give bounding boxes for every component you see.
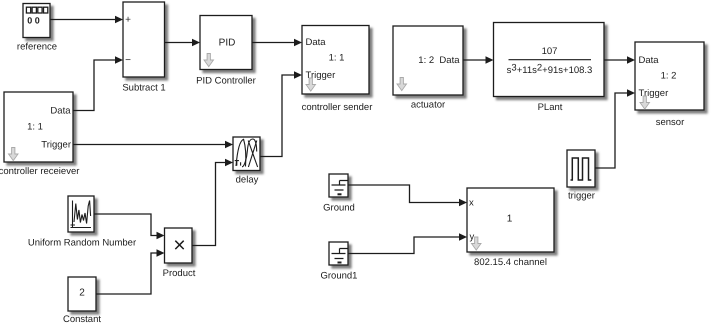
svg-text:Data: Data — [639, 55, 660, 66]
block actuator — [393, 26, 463, 111]
block delay (variable time delay) — [233, 137, 260, 186]
svg-text:reference: reference — [17, 42, 57, 53]
wire delay output to sender Trigger input — [260, 71, 302, 156]
svg-text:0 0: 0 0 — [27, 16, 40, 26]
wire actuator output to PLant input — [463, 56, 494, 64]
svg-text:PID: PID — [219, 38, 236, 49]
svg-text:2: 2 — [79, 288, 85, 299]
svg-text:1: 1 — [507, 214, 513, 225]
svg-text:1: 1: 1: 1 — [27, 122, 43, 133]
svg-text:1: 2: 1: 2 — [661, 71, 677, 82]
block controller receiever — [0, 92, 79, 177]
block PID Controller U-PID — [196, 16, 256, 87]
svg-text:802.15.4 channel: 802.15.4 channel — [474, 257, 547, 268]
block Product — [163, 228, 196, 279]
svg-text:Ground: Ground — [323, 203, 355, 214]
wire receiever Trigger to delay input 1 — [73, 141, 233, 149]
svg-text:PLant: PLant — [538, 102, 563, 113]
svg-text:PID Controller: PID Controller — [196, 76, 256, 87]
wire PID output to sender Data input — [252, 39, 302, 47]
block PLant transfer function — [494, 23, 605, 114]
block 802.15.4 channel — [467, 188, 554, 268]
wire trigger output to sensor Trigger input — [595, 89, 635, 168]
block Ground1 — [321, 242, 358, 282]
svg-text:Uniform Random Number: Uniform Random Number — [28, 238, 136, 249]
svg-text:trigger: trigger — [568, 191, 595, 202]
svg-text:actuator: actuator — [411, 100, 445, 111]
block Constant value 2 — [63, 277, 101, 325]
svg-text:s3+11s2+91s+108.3: s3+11s2+91s+108.3 — [507, 63, 593, 77]
wire receiever Data to Subtract minus input — [73, 56, 123, 110]
wire Product output to delay input 2 — [192, 159, 233, 246]
wire Constant to Product input 2 — [96, 249, 165, 294]
block trigger (pulse generator) — [567, 150, 595, 202]
svg-text:Trigger: Trigger — [41, 140, 71, 151]
wire reference to Subtract plus input — [50, 16, 123, 24]
svg-text:Constant: Constant — [63, 314, 101, 325]
svg-text:1: 2 Data: 1: 2 Data — [418, 55, 460, 66]
svg-text:Data: Data — [306, 37, 327, 48]
svg-text:1: 1: 1: 1 — [329, 53, 345, 64]
block Uniform Random Number — [28, 196, 136, 249]
wire Ground1 to channel y input — [348, 233, 467, 253]
block Ground — [323, 174, 355, 214]
svg-text:−: − — [125, 55, 131, 66]
block controller sender — [302, 26, 373, 114]
svg-text:delay: delay — [236, 175, 259, 186]
svg-text:x: x — [469, 198, 474, 209]
svg-text:controller receiever: controller receiever — [0, 166, 79, 177]
block Subtract 1 — [122, 2, 165, 94]
svg-text:Ground1: Ground1 — [321, 271, 358, 282]
block sensor — [635, 42, 704, 128]
svg-text:107: 107 — [542, 46, 558, 57]
svg-text:y: y — [470, 232, 475, 243]
svg-text:+: + — [125, 15, 131, 26]
svg-text:Subtract 1: Subtract 1 — [122, 83, 165, 94]
wire Subtract output to PID input — [165, 39, 201, 47]
svg-text:Data: Data — [50, 106, 71, 117]
svg-text:sensor: sensor — [656, 117, 685, 128]
block reference (Digital Clock) — [17, 4, 57, 53]
wire Ground to channel x input — [348, 185, 467, 206]
wire Uniform Random Number to Product input 1 — [94, 214, 165, 239]
wire PLant output to sensor Data input — [604, 56, 635, 64]
svg-text:controller sender: controller sender — [302, 102, 373, 113]
svg-text:Product: Product — [163, 268, 196, 279]
